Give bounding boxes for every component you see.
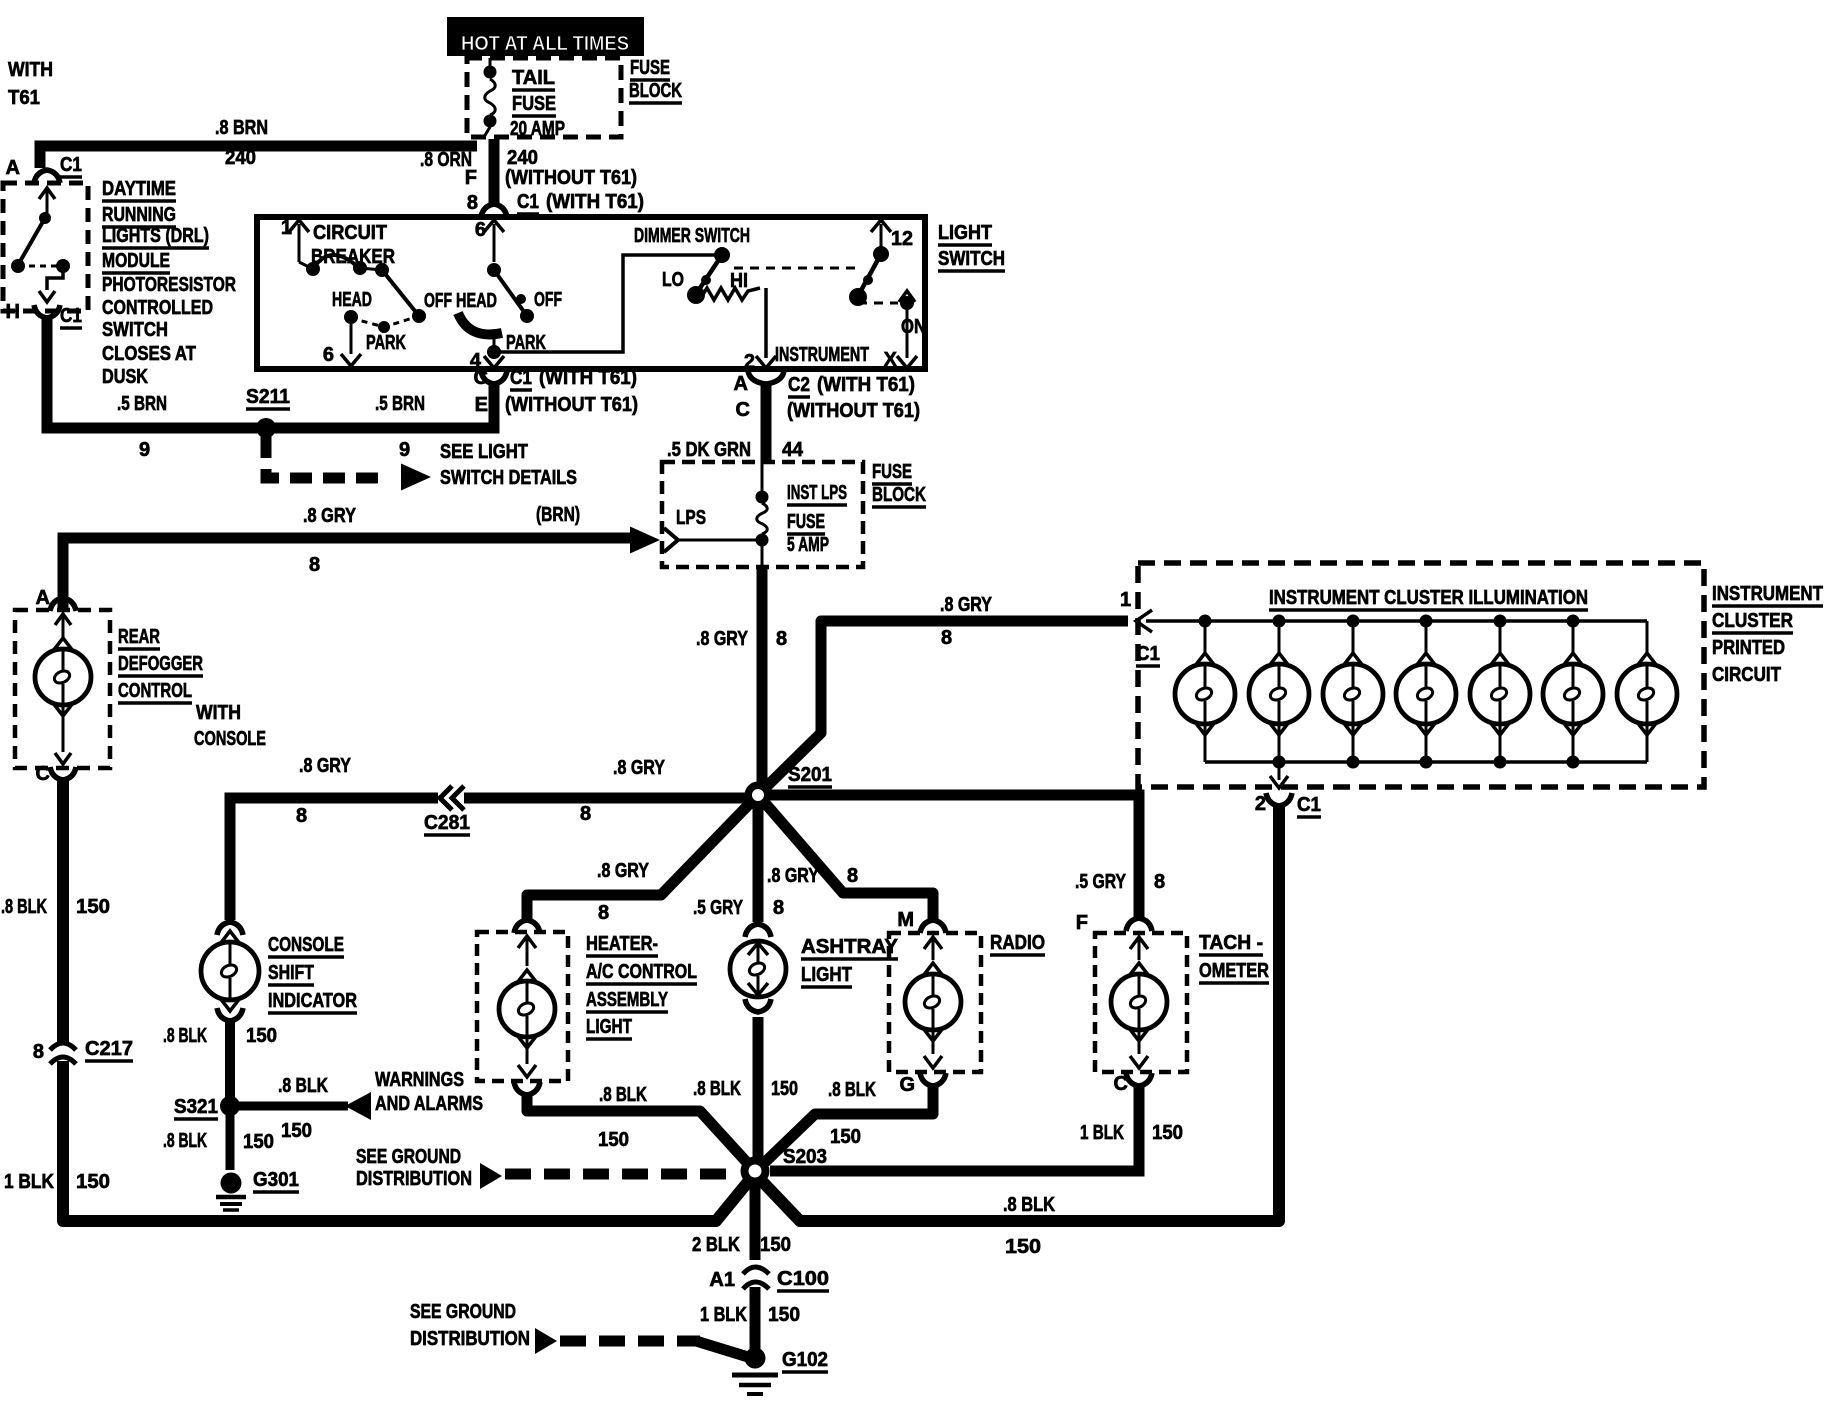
- svg-text:C1: C1: [1297, 794, 1321, 816]
- junction dot bottom bus: [1567, 756, 1580, 769]
- svg-text:FUSE: FUSE: [872, 461, 912, 483]
- svg-text:G102: G102: [782, 1349, 828, 1371]
- svg-text:LO: LO: [662, 269, 684, 291]
- svg-text:FUSE: FUSE: [512, 93, 556, 115]
- cluster lamp 7: [1646, 621, 1649, 652]
- wire 2 BLK S203 to C100: [750, 1171, 761, 1260]
- svg-text:FUSE: FUSE: [630, 57, 670, 79]
- wire 1 BLK C100 to G102: [750, 1287, 761, 1350]
- svg-text:PARK: PARK: [366, 332, 406, 354]
- svg-text:1 BLK: 1 BLK: [700, 1304, 747, 1326]
- svg-text:.8 GRY: .8 GRY: [940, 594, 993, 616]
- svg-text:G301: G301: [253, 1169, 299, 1191]
- svg-text:150: 150: [830, 1126, 861, 1148]
- left switch blade: [382, 270, 419, 316]
- svg-text:H: H: [6, 301, 20, 323]
- splice S321: [220, 1096, 240, 1116]
- wire .8 BLK to warnings and alarms: [230, 1102, 348, 1111]
- connector heater pin: [514, 920, 540, 933]
- svg-text:SHIFT: SHIFT: [268, 962, 314, 984]
- svg-text:8: 8: [309, 554, 320, 576]
- wire .8 BLK console to S321: [225, 1021, 235, 1106]
- svg-text:LIGHT: LIGHT: [586, 1016, 632, 1038]
- svg-text:CLOSES AT: CLOSES AT: [102, 343, 196, 365]
- svg-text:S321: S321: [174, 1096, 218, 1118]
- wire .5 DK GRN 44 to fuse block: [761, 384, 772, 462]
- svg-text:C1: C1: [60, 305, 82, 327]
- junction dot bottom bus: [1347, 756, 1360, 769]
- lamp ashtray light: [745, 924, 771, 937]
- wire .8 BLK cluster to S203: [758, 806, 1279, 1221]
- svg-text:.8 BLK: .8 BLK: [1003, 1194, 1055, 1216]
- svg-text:TAIL: TAIL: [512, 67, 555, 89]
- svg-text:8: 8: [1154, 871, 1165, 893]
- junction dot top bus: [1347, 615, 1360, 628]
- ground G102: [745, 1348, 766, 1369]
- svg-text:OMETER: OMETER: [1199, 960, 1269, 982]
- svg-text:20 AMP: 20 AMP: [510, 118, 565, 140]
- wire dimmer to instrument pin 2: [764, 288, 768, 358]
- svg-text:150: 150: [246, 1025, 277, 1047]
- junction dot bottom bus: [1273, 756, 1286, 769]
- svg-text:.5 BRN: .5 BRN: [117, 393, 167, 415]
- svg-text:8: 8: [598, 902, 609, 924]
- linkage courtesy-ON (dashed): [858, 302, 898, 305]
- DRL module connector C1 (pin A): [34, 170, 60, 183]
- connector heater ground pin: [514, 1082, 540, 1095]
- right switch blade: [494, 270, 527, 316]
- splice S211: [256, 418, 276, 438]
- svg-text:2 BLK: 2 BLK: [692, 1234, 740, 1256]
- svg-text:150: 150: [598, 1129, 629, 1151]
- cluster lamp 5: [1499, 621, 1502, 652]
- cluster lamp 4: [1425, 621, 1428, 652]
- svg-text:CONSOLE: CONSOLE: [268, 934, 344, 956]
- svg-text:SWITCH: SWITCH: [938, 248, 1005, 270]
- svg-text:LIGHTS (DRL): LIGHTS (DRL): [102, 225, 209, 247]
- svg-text:CONTROL: CONTROL: [118, 680, 192, 702]
- svg-text:SEE GROUND: SEE GROUND: [356, 1146, 461, 1168]
- svg-text:INSTRUMENT CLUSTER ILLUMINATI: INSTRUMENT CLUSTER ILLUMINATION: [1269, 587, 1588, 609]
- wire .8 GRY console branch from S201: [230, 798, 748, 920]
- svg-text:A1: A1: [709, 1269, 735, 1291]
- svg-text:.8 GRY: .8 GRY: [613, 757, 666, 779]
- svg-text:150: 150: [1152, 1122, 1183, 1144]
- connector C2 below light switch: [748, 371, 784, 384]
- svg-text:HOT AT ALL TIMES: HOT AT ALL TIMES: [461, 33, 629, 55]
- svg-text:9: 9: [399, 439, 410, 461]
- svg-text:6: 6: [323, 344, 334, 366]
- svg-text:PRINTED: PRINTED: [1712, 637, 1785, 659]
- svg-text:12: 12: [891, 228, 913, 250]
- connector C100 pin A1: [744, 1266, 766, 1284]
- svg-text:LIGHT: LIGHT: [801, 964, 852, 986]
- wire .8 GRY S201 to heater lamp: [527, 795, 758, 920]
- svg-text:C1: C1: [517, 191, 539, 213]
- svg-text:.8 BLK: .8 BLK: [163, 1130, 207, 1152]
- svg-text:DEFOGGER: DEFOGGER: [118, 653, 203, 675]
- cluster lamp 2: [1278, 621, 1281, 652]
- svg-text:(WITH T61): (WITH T61): [546, 191, 644, 213]
- daytime running lights module box: [3, 183, 88, 311]
- connector C1 pin 2: [1266, 793, 1292, 806]
- svg-text:C1: C1: [510, 367, 532, 389]
- svg-text:(WITHOUT T61): (WITHOUT T61): [505, 167, 637, 189]
- linkage dimmer-courtesy (dashed): [734, 267, 856, 270]
- svg-text:150: 150: [243, 1131, 274, 1153]
- light switch box: [257, 217, 925, 369]
- wire .8 BLK heater to S203: [527, 1095, 752, 1168]
- cluster pin 2 drop: [1278, 762, 1281, 780]
- svg-text:.8 BLK: .8 BLK: [828, 1079, 876, 1101]
- connector radio pin G: [920, 1073, 946, 1086]
- svg-text:150: 150: [1005, 1236, 1041, 1258]
- svg-text:.8 GRY: .8 GRY: [696, 628, 749, 650]
- svg-text:MODULE: MODULE: [102, 250, 170, 272]
- svg-text:RUNNING: RUNNING: [102, 204, 176, 226]
- power label HOT AT ALL TIMES: [447, 17, 644, 56]
- junction dot top bus: [1273, 615, 1286, 628]
- right switch PARK contact: [493, 334, 496, 348]
- junction dot bottom bus: [1420, 756, 1433, 769]
- svg-text:8: 8: [773, 897, 784, 919]
- svg-text:S203: S203: [783, 1146, 827, 1168]
- svg-text:44: 44: [782, 439, 804, 461]
- svg-text:150: 150: [76, 896, 110, 918]
- DRL module connector C1 (pin H): [34, 305, 60, 318]
- svg-text:2: 2: [1255, 793, 1266, 815]
- svg-text:SEE GROUND: SEE GROUND: [410, 1301, 516, 1323]
- cluster lamp 1: [1204, 621, 1207, 652]
- svg-text:C: C: [474, 367, 488, 389]
- svg-text:.8 BLK: .8 BLK: [599, 1084, 647, 1106]
- svg-text:SEE LIGHT: SEE LIGHT: [440, 441, 528, 463]
- svg-text:(BRN): (BRN): [536, 504, 580, 526]
- svg-text:240: 240: [507, 147, 538, 169]
- svg-text:.8 BLK: .8 BLK: [693, 1078, 741, 1100]
- svg-text:TACH -: TACH -: [1199, 932, 1263, 954]
- svg-text:CIRCUIT: CIRCUIT: [313, 222, 387, 244]
- wire .8 GRY S201 to instrument cluster C1 pin 1: [758, 621, 1128, 795]
- ground G301: [221, 1173, 242, 1194]
- cluster top bus: [1146, 619, 1647, 623]
- svg-text:5 AMP: 5 AMP: [787, 534, 829, 556]
- lamp radio: [924, 937, 942, 949]
- junction dot top bus: [1199, 615, 1212, 628]
- svg-text:1 BLK: 1 BLK: [4, 1171, 54, 1193]
- wire park contact to dimmer switch: [498, 255, 716, 352]
- svg-text:G: G: [899, 1074, 915, 1096]
- wire .5 GRY S201 to tachometer: [758, 795, 1139, 918]
- svg-text:S201: S201: [788, 764, 832, 786]
- svg-text:CLUSTER: CLUSTER: [1712, 610, 1793, 632]
- wire .8 GRY from LPS fuse to S201: [757, 567, 768, 795]
- svg-text:A: A: [36, 587, 50, 609]
- svg-text:DIMMER SWITCH: DIMMER SWITCH: [634, 225, 750, 247]
- svg-text:REAR: REAR: [118, 626, 160, 648]
- svg-text:A: A: [734, 373, 748, 395]
- splice S203: [741, 1157, 770, 1186]
- svg-text:E: E: [475, 394, 488, 416]
- svg-text:.8 GRY: .8 GRY: [767, 865, 820, 887]
- wire .8 GRY from rear defogger to LPS: [63, 538, 638, 610]
- svg-text:(WITHOUT T61): (WITHOUT T61): [505, 394, 638, 416]
- svg-text:WITH: WITH: [196, 702, 241, 724]
- svg-text:240: 240: [225, 147, 256, 169]
- svg-text:PHOTORESISTOR: PHOTORESISTOR: [102, 274, 236, 296]
- tachometer box: [1095, 933, 1187, 1072]
- svg-text:SWITCH: SWITCH: [102, 319, 168, 341]
- svg-text:INST LPS: INST LPS: [787, 482, 847, 504]
- svg-text:AND ALARMS: AND ALARMS: [375, 1093, 483, 1115]
- svg-text:C: C: [36, 763, 50, 785]
- svg-text:8: 8: [776, 628, 787, 650]
- svg-text:ON: ON: [901, 316, 926, 338]
- svg-text:ASSEMBLY: ASSEMBLY: [586, 989, 668, 1011]
- connector at light switch pin 4: [481, 371, 507, 384]
- svg-text:.8 GRY: .8 GRY: [303, 505, 357, 527]
- svg-text:DISTRIBUTION: DISTRIBUTION: [410, 1328, 530, 1350]
- svg-text:1: 1: [1120, 589, 1131, 611]
- cluster lamp 3: [1352, 621, 1355, 652]
- lamp rear defogger: [55, 614, 71, 625]
- svg-text:BLOCK: BLOCK: [629, 80, 682, 102]
- svg-text:150: 150: [76, 1171, 110, 1193]
- wire .8 BLK radio to S203: [760, 1086, 933, 1167]
- fuse block box (TAIL FUSE): [467, 58, 621, 137]
- radio box: [889, 933, 981, 1072]
- junction dot bottom bus: [1494, 756, 1507, 769]
- dashed wire to light switch details: [266, 436, 388, 478]
- LPS pin chevron: [664, 528, 678, 552]
- svg-text:8: 8: [296, 805, 307, 827]
- svg-text:.8 BLK: .8 BLK: [1, 896, 47, 918]
- right switch wiper crescent: [458, 313, 502, 334]
- fuse INST LPS 5 AMP: [761, 462, 764, 491]
- svg-text:HEAD: HEAD: [456, 290, 497, 312]
- svg-text:.8 GRY: .8 GRY: [299, 755, 352, 777]
- svg-text:CIRCUIT: CIRCUIT: [1712, 664, 1781, 686]
- dimmer rheostat: [700, 288, 760, 300]
- svg-text:.8 BLK: .8 BLK: [278, 1075, 328, 1097]
- svg-text:HEAD: HEAD: [332, 289, 372, 311]
- splice S201: [745, 782, 772, 809]
- cluster pin 1 arrow: [1136, 610, 1152, 632]
- DRL photoresistor switch: [39, 188, 55, 199]
- svg-text:150: 150: [281, 1120, 312, 1142]
- svg-text:INSTRUMENT: INSTRUMENT: [1712, 583, 1823, 605]
- svg-text:1 BLK: 1 BLK: [1080, 1122, 1124, 1144]
- svg-text:S211: S211: [246, 386, 290, 408]
- cluster lamp 6: [1572, 621, 1575, 652]
- svg-text:M: M: [897, 909, 914, 931]
- svg-text:WITH: WITH: [8, 59, 53, 81]
- connector tach pin C: [1126, 1073, 1152, 1086]
- svg-text:A/C CONTROL: A/C CONTROL: [586, 961, 697, 983]
- lamp console shift indicator: [217, 922, 243, 935]
- svg-text:SWITCH DETAILS: SWITCH DETAILS: [440, 467, 577, 489]
- svg-text:.8 GRY: .8 GRY: [597, 860, 650, 882]
- wire .8 BLK defogger to S203 (bottom left run): [63, 780, 752, 1221]
- rear defogger control box: [15, 610, 110, 768]
- svg-text:.5 GRY: .5 GRY: [693, 897, 744, 919]
- svg-text:C: C: [736, 399, 750, 421]
- junction dot top bus: [1420, 615, 1433, 628]
- connector C217: [51, 1043, 75, 1061]
- svg-text:150: 150: [768, 1304, 800, 1326]
- lamp tachometer: [1130, 937, 1148, 949]
- svg-text:ASHTRAY: ASHTRAY: [801, 936, 899, 958]
- courtesy switch blade: [858, 254, 881, 296]
- svg-text:.8 BRN: .8 BRN: [215, 117, 268, 139]
- svg-text:RADIO: RADIO: [990, 932, 1045, 954]
- svg-text:BLOCK: BLOCK: [872, 484, 926, 506]
- connector radio pin M: [920, 920, 946, 933]
- svg-text:INSTRUMENT: INSTRUMENT: [775, 344, 869, 366]
- svg-text:F: F: [465, 167, 477, 189]
- connector tach pin F: [1126, 918, 1152, 931]
- svg-text:8: 8: [941, 627, 952, 649]
- svg-text:CONSOLE: CONSOLE: [194, 728, 266, 750]
- svg-text:C100: C100: [777, 1268, 829, 1290]
- svg-text:DUSK: DUSK: [102, 366, 148, 388]
- svg-text:F: F: [1076, 912, 1088, 934]
- svg-text:8: 8: [847, 865, 858, 887]
- junction dot top bus: [1567, 615, 1580, 628]
- svg-text:.5 DK GRN: .5 DK GRN: [667, 439, 751, 461]
- svg-text:C1: C1: [60, 154, 82, 176]
- svg-text:(WITH T61): (WITH T61): [817, 374, 915, 396]
- svg-text:WARNINGS: WARNINGS: [375, 1069, 464, 1091]
- heater A/C control box: [477, 932, 568, 1081]
- instrument cluster printed circuit box: [1138, 563, 1704, 787]
- svg-text:C217: C217: [85, 1038, 133, 1060]
- wire .8 BLK S321 to G301: [226, 1106, 235, 1170]
- junction dot top bus: [1494, 615, 1507, 628]
- lamp heater A/C control assembly: [518, 936, 536, 948]
- svg-text:(WITHOUT T61): (WITHOUT T61): [787, 400, 920, 422]
- svg-text:C281: C281: [424, 812, 470, 834]
- wire .8 GRY S201 to radio: [758, 795, 933, 920]
- rear defogger connector C: [50, 767, 76, 780]
- svg-text:9: 9: [139, 439, 150, 461]
- svg-text:OFF: OFF: [424, 290, 452, 312]
- svg-text:2: 2: [744, 351, 755, 373]
- connector C281: [438, 787, 464, 809]
- connector C1 below tail fuse: [481, 204, 507, 217]
- cluster bottom bus: [1205, 760, 1647, 764]
- svg-text:8: 8: [467, 192, 478, 214]
- svg-text:C2: C2: [788, 374, 810, 396]
- svg-text:DAYTIME: DAYTIME: [102, 178, 176, 200]
- fuse TAIL FUSE 20 AMP: [489, 58, 492, 66]
- svg-text:.5 GRY: .5 GRY: [1075, 871, 1127, 893]
- svg-text:T61: T61: [8, 87, 40, 109]
- wire .8 BLK ashtray to S203: [753, 1017, 764, 1171]
- svg-text:INDICATOR: INDICATOR: [268, 990, 357, 1012]
- svg-text:8: 8: [580, 803, 591, 825]
- fuse block box (INST LPS): [662, 462, 863, 567]
- svg-text:.5 BRN: .5 BRN: [375, 393, 425, 415]
- wire tail fuse down to light switch pin: [489, 139, 500, 204]
- svg-text:HEATER-: HEATER-: [586, 933, 658, 955]
- svg-text:A: A: [6, 157, 20, 179]
- svg-text:(WITH T61): (WITH T61): [539, 367, 637, 389]
- svg-text:150: 150: [760, 1234, 791, 1256]
- svg-text:FUSE: FUSE: [787, 511, 825, 533]
- svg-text:.8 BLK: .8 BLK: [163, 1025, 207, 1047]
- svg-text:150: 150: [771, 1078, 798, 1100]
- courtesy X pin: [899, 291, 915, 302]
- svg-text:DISTRIBUTION: DISTRIBUTION: [356, 1168, 472, 1190]
- svg-text:OFF: OFF: [534, 289, 562, 311]
- svg-text:LPS: LPS: [676, 507, 706, 529]
- wire .5 BRN from DRL to light switch: [47, 318, 494, 428]
- svg-text:LIGHT: LIGHT: [938, 222, 992, 244]
- wire .8 BRN 240 from DRL module to fuse: [40, 146, 477, 168]
- svg-text:CONTROLLED: CONTROLLED: [102, 297, 213, 319]
- svg-text:X: X: [884, 349, 898, 371]
- wire 1 BLK tach to S203: [770, 1086, 1139, 1171]
- svg-text:C: C: [1114, 1073, 1128, 1095]
- svg-text:8: 8: [33, 1041, 44, 1063]
- wire .5 GRY S201 to ashtray lamp: [753, 795, 764, 922]
